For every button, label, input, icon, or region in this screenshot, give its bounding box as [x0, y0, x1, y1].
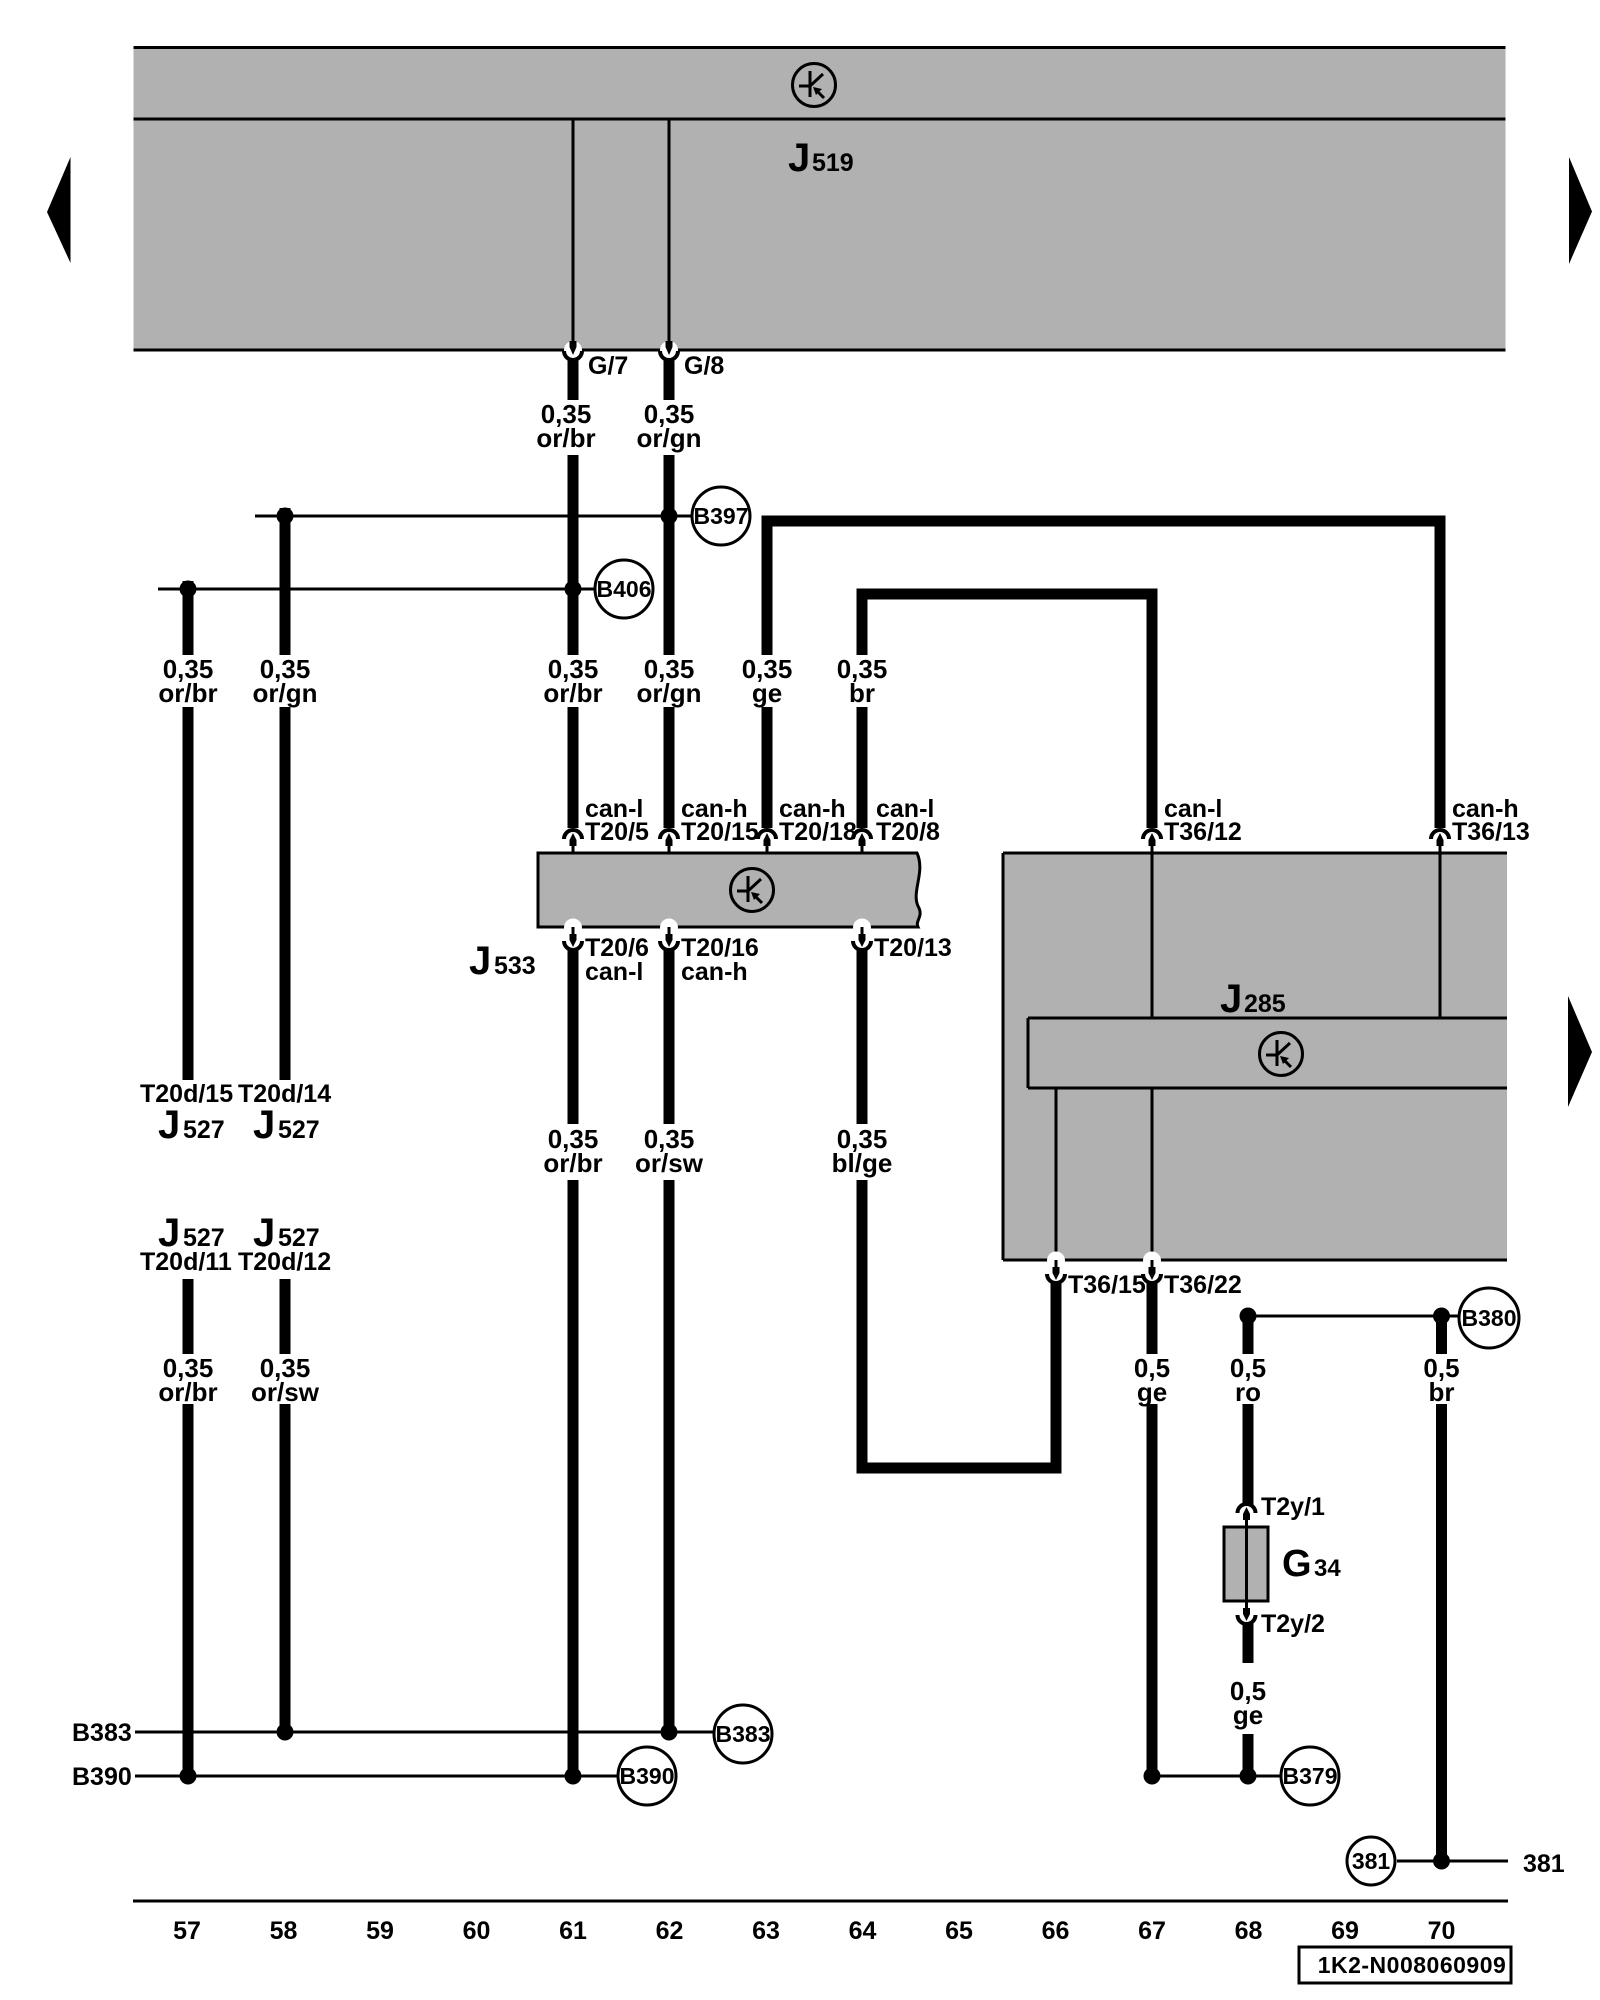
wire label 0,35 bl/ge — [832, 1124, 893, 1178]
svg-text:34: 34 — [1314, 1555, 1341, 1582]
node line 381 — [1397, 1860, 1508, 1863]
svg-text:527: 527 — [183, 1116, 225, 1144]
pin T2y/2 on G34 — [1238, 1601, 1256, 1624]
wire T36/15 inside J285 — [1055, 1088, 1058, 1260]
control unit J519 box — [134, 48, 1506, 351]
wire label 0,35 or/br (G/7 top) — [536, 399, 595, 453]
wire label 0,5 ge — [1134, 1353, 1170, 1407]
svg-text:or/sw: or/sw — [635, 1148, 704, 1178]
pin label can-l T20/8 — [876, 795, 940, 846]
svg-text:519: 519 — [812, 149, 854, 177]
svg-text:B383: B383 — [716, 1721, 771, 1747]
node circle B380 — [1459, 1288, 1519, 1348]
svg-text:B390: B390 — [72, 1763, 132, 1791]
pin T20/5 on J533 — [564, 830, 582, 853]
svg-text:ge: ge — [1137, 1377, 1167, 1407]
label J527 (lower left) — [158, 1211, 225, 1255]
node circle B390 — [618, 1747, 676, 1805]
wire label 0,35 ge — [742, 654, 793, 708]
svg-text:T36/13: T36/13 — [1452, 818, 1530, 846]
node circle B379 — [1281, 1747, 1339, 1805]
svg-text:T36/22: T36/22 — [1164, 1271, 1242, 1299]
pin T36/22 on J285 — [1143, 1252, 1161, 1284]
pin T20/8 on J533 — [853, 830, 871, 853]
wire or/br J519 G/7 to J533 T20/5 (can-l) — [568, 359, 579, 828]
svg-text:can-h: can-h — [681, 958, 748, 986]
wire label 0,35 or/sw (below J533) — [635, 1124, 704, 1178]
node line B380 — [1248, 1315, 1458, 1318]
wire label 0,5 ge (below G34) — [1230, 1676, 1266, 1730]
svg-text:G: G — [1282, 1543, 1312, 1585]
label J527 (upper right) — [253, 1103, 320, 1147]
svg-text:br: br — [1429, 1377, 1455, 1407]
svg-text:br: br — [849, 678, 875, 708]
node circle B406 — [595, 560, 653, 618]
node circle B397 — [692, 487, 750, 545]
wire label 0,35 or/sw (left bottom) — [251, 1353, 320, 1407]
pin T36/15 on J285 — [1047, 1252, 1065, 1284]
svg-text:T20/15: T20/15 — [681, 818, 759, 846]
svg-text:T20/8: T20/8 — [876, 818, 940, 846]
label J527 (lower right) — [253, 1211, 320, 1255]
node line B406 — [158, 588, 595, 591]
wire ge can-h bus B397 to J533 T20/18 and J285 T36/13 — [767, 521, 1440, 828]
K symbol in J285 — [1260, 1033, 1303, 1076]
svg-text:61: 61 — [559, 1917, 587, 1945]
wire or/br J533 T20/6 to B390 — [568, 949, 579, 1776]
wire label 0,35 br — [837, 654, 888, 708]
svg-text:ge: ge — [752, 678, 782, 708]
svg-text:B379: B379 — [1283, 1763, 1338, 1789]
svg-text:381: 381 — [1352, 1848, 1391, 1874]
wire or/br left J527 T20d/15 branch — [183, 581, 194, 1776]
svg-text:or/br: or/br — [543, 1148, 602, 1178]
junction dot br/B380 — [1433, 1308, 1450, 1325]
svg-text:G/7: G/7 — [588, 352, 628, 380]
svg-text:T20/18: T20/18 — [779, 818, 857, 846]
label G34 — [1282, 1543, 1341, 1585]
svg-text:J: J — [469, 939, 491, 983]
wire label 0,35 or/gn (G/8 top) — [637, 399, 702, 453]
continuation arrow right middle — [1568, 996, 1592, 1107]
svg-text:J: J — [253, 1103, 275, 1147]
wire G/8 inside J519 — [668, 119, 671, 343]
wire label 0,35 or/br (left bottom) — [158, 1353, 217, 1407]
junction dot wire1/B390 — [180, 1768, 197, 1785]
label J519 — [788, 136, 854, 180]
svg-text:G/8: G/8 — [684, 352, 724, 380]
svg-text:285: 285 — [1244, 990, 1286, 1018]
wire or/sw J533 T20/16 to B383 — [664, 949, 675, 1732]
pin label can-h T36/13 — [1452, 795, 1530, 846]
svg-text:B380: B380 — [1462, 1305, 1517, 1331]
svg-text:527: 527 — [278, 1116, 320, 1144]
junction dot ge2/B379 — [1240, 1768, 1257, 1785]
pin label can-h T20/18 — [779, 795, 857, 846]
junction dot br/381 — [1433, 1853, 1450, 1870]
wire label 0,35 or/br (mid) — [543, 654, 602, 708]
junction dot wire1/B406 — [180, 581, 197, 598]
pin T20/13 on J533 — [853, 919, 871, 951]
wire or/gn J519 G/8 to J533 T20/15 (can-h) — [664, 359, 675, 828]
wire label 0,5 br — [1423, 1353, 1459, 1407]
svg-text:59: 59 — [366, 1917, 394, 1945]
pin T20/15 on J533 — [660, 830, 678, 853]
svg-text:67: 67 — [1138, 1917, 1166, 1945]
svg-text:69: 69 — [1331, 1917, 1359, 1945]
svg-text:J: J — [788, 136, 810, 180]
wire label 0,35 or/gn (mid) — [637, 654, 702, 708]
svg-text:or/br: or/br — [158, 1377, 217, 1407]
grid numbers 57-70 — [173, 1917, 1455, 1945]
svg-text:T20d/11: T20d/11 — [140, 1248, 232, 1276]
svg-text:T2y/2: T2y/2 — [1261, 1610, 1325, 1638]
label J533 — [469, 939, 536, 983]
node line B383 — [135, 1731, 714, 1734]
pin label can-h T20/15 — [681, 795, 759, 846]
svg-text:B383: B383 — [72, 1719, 132, 1747]
wire T36/12 inside J285 — [1151, 853, 1154, 1018]
wire or/gn left J527 T20d/14 branch — [280, 508, 291, 1732]
pin T2y/1 on G34 — [1238, 1504, 1256, 1527]
svg-text:60: 60 — [463, 1917, 491, 1945]
pin label can-l T20/5 — [585, 795, 649, 846]
svg-text:62: 62 — [656, 1917, 684, 1945]
svg-text:70: 70 — [1428, 1917, 1456, 1945]
continuation arrow left — [47, 157, 71, 263]
label J527 (upper left) — [158, 1103, 225, 1147]
pin label can-l T36/12 — [1164, 795, 1242, 846]
svg-text:T2y/1: T2y/1 — [1261, 1493, 1325, 1521]
pin label T20/16 can-h — [681, 934, 759, 986]
svg-text:or/gn: or/gn — [253, 678, 318, 708]
pin T36/12 on J285 — [1143, 830, 1161, 853]
label J285 — [1220, 977, 1286, 1021]
sensor G34 box — [1224, 1527, 1268, 1601]
svg-text:B406: B406 — [597, 576, 652, 602]
wire bl/ge J533 T20/13 to J285 T36/15 — [862, 949, 1056, 1468]
grid baseline — [133, 1900, 1508, 1903]
svg-text:can-l: can-l — [585, 958, 643, 986]
svg-text:58: 58 — [270, 1917, 298, 1945]
svg-text:65: 65 — [945, 1917, 973, 1945]
wire br can-l bus J533 T20/8 to J285 T36/12 — [862, 594, 1152, 828]
wire label 0,35 or/gn (left wire2) — [253, 654, 318, 708]
junction dot wire2/B397 — [277, 508, 294, 525]
svg-text:1K2-N008060909: 1K2-N008060909 — [1318, 1952, 1507, 1978]
svg-text:T36/15: T36/15 — [1068, 1271, 1146, 1299]
svg-text:66: 66 — [1042, 1917, 1070, 1945]
svg-text:J: J — [158, 1103, 180, 1147]
pin T36/13 on J285 — [1431, 830, 1449, 853]
diagram id box 1K2-N008060909 — [1299, 1947, 1511, 1983]
node line B397 — [255, 515, 692, 518]
svg-text:or/gn: or/gn — [637, 423, 702, 453]
svg-text:or/gn: or/gn — [637, 678, 702, 708]
svg-text:B397: B397 — [694, 503, 749, 529]
node line B379 — [1152, 1775, 1281, 1778]
pin label T20/6 can-l — [585, 934, 649, 986]
node circle B383 — [714, 1705, 772, 1763]
wire br B380 to 381 — [1436, 1316, 1447, 1861]
control unit J533 box (torn right edge) — [538, 853, 920, 927]
wire G/7 inside J519 — [572, 119, 575, 343]
continuation arrow right top — [1569, 157, 1592, 264]
pin G/7 on J519 — [564, 341, 582, 360]
wire ge J285 T36/22 to B379 — [1147, 1283, 1158, 1776]
svg-text:B390: B390 — [620, 1763, 675, 1789]
svg-text:or/br: or/br — [158, 678, 217, 708]
pin T20/16 on J533 — [660, 919, 678, 951]
svg-text:T20/13: T20/13 — [874, 934, 952, 962]
svg-text:bl/ge: bl/ge — [832, 1148, 893, 1178]
pin T20/6 on J533 — [564, 919, 582, 950]
svg-text:68: 68 — [1235, 1917, 1263, 1945]
wire label 0,35 or/br (below J533) — [543, 1124, 602, 1178]
junction dot or-br/B390 — [565, 1768, 582, 1785]
junction dot ge/B379 — [1144, 1768, 1161, 1785]
pin T20/18 on J533 — [758, 830, 776, 853]
svg-text:or/sw: or/sw — [251, 1377, 320, 1407]
pin G/8 on J519 — [660, 341, 678, 360]
wire ge G34 T2y/2 to B379 — [1243, 1623, 1254, 1776]
svg-text:or/br: or/br — [543, 678, 602, 708]
svg-text:ro: ro — [1235, 1377, 1261, 1407]
junction dot or-gn/B397 — [661, 508, 678, 525]
junction dot or-br/B406 — [565, 581, 582, 598]
svg-text:T20/5: T20/5 — [585, 818, 649, 846]
wire T36/22 inside J285 — [1151, 1088, 1154, 1260]
svg-text:381: 381 — [1523, 1850, 1565, 1878]
svg-text:64: 64 — [849, 1917, 877, 1945]
svg-text:57: 57 — [173, 1917, 201, 1945]
svg-text:63: 63 — [752, 1917, 780, 1945]
node line B390 — [135, 1775, 618, 1778]
junction dot ro/B380 — [1240, 1308, 1257, 1325]
control unit J285 box — [1003, 853, 1507, 1260]
junction dot wire2/B383 — [277, 1724, 294, 1741]
svg-text:J: J — [1220, 977, 1242, 1021]
wire label 0,5 ro — [1230, 1353, 1266, 1407]
svg-text:T20d/15: T20d/15 — [140, 1080, 233, 1108]
svg-text:533: 533 — [494, 952, 536, 980]
svg-text:ge: ge — [1233, 1700, 1263, 1730]
svg-text:T20d/12: T20d/12 — [238, 1248, 331, 1276]
svg-text:T36/12: T36/12 — [1164, 818, 1242, 846]
K symbol in J533 — [731, 869, 774, 912]
svg-text:T20d/14: T20d/14 — [238, 1080, 331, 1108]
K symbol in J519 — [793, 64, 836, 107]
svg-text:or/br: or/br — [536, 423, 595, 453]
wire T36/13 inside J285 — [1439, 853, 1442, 1018]
wire ro B380 to G34 T2y/1 — [1243, 1316, 1254, 1505]
wire label 0,35 or/br (left wire1) — [158, 654, 217, 708]
junction dot or-sw/B383 — [661, 1724, 678, 1741]
node circle 381 — [1347, 1837, 1395, 1885]
